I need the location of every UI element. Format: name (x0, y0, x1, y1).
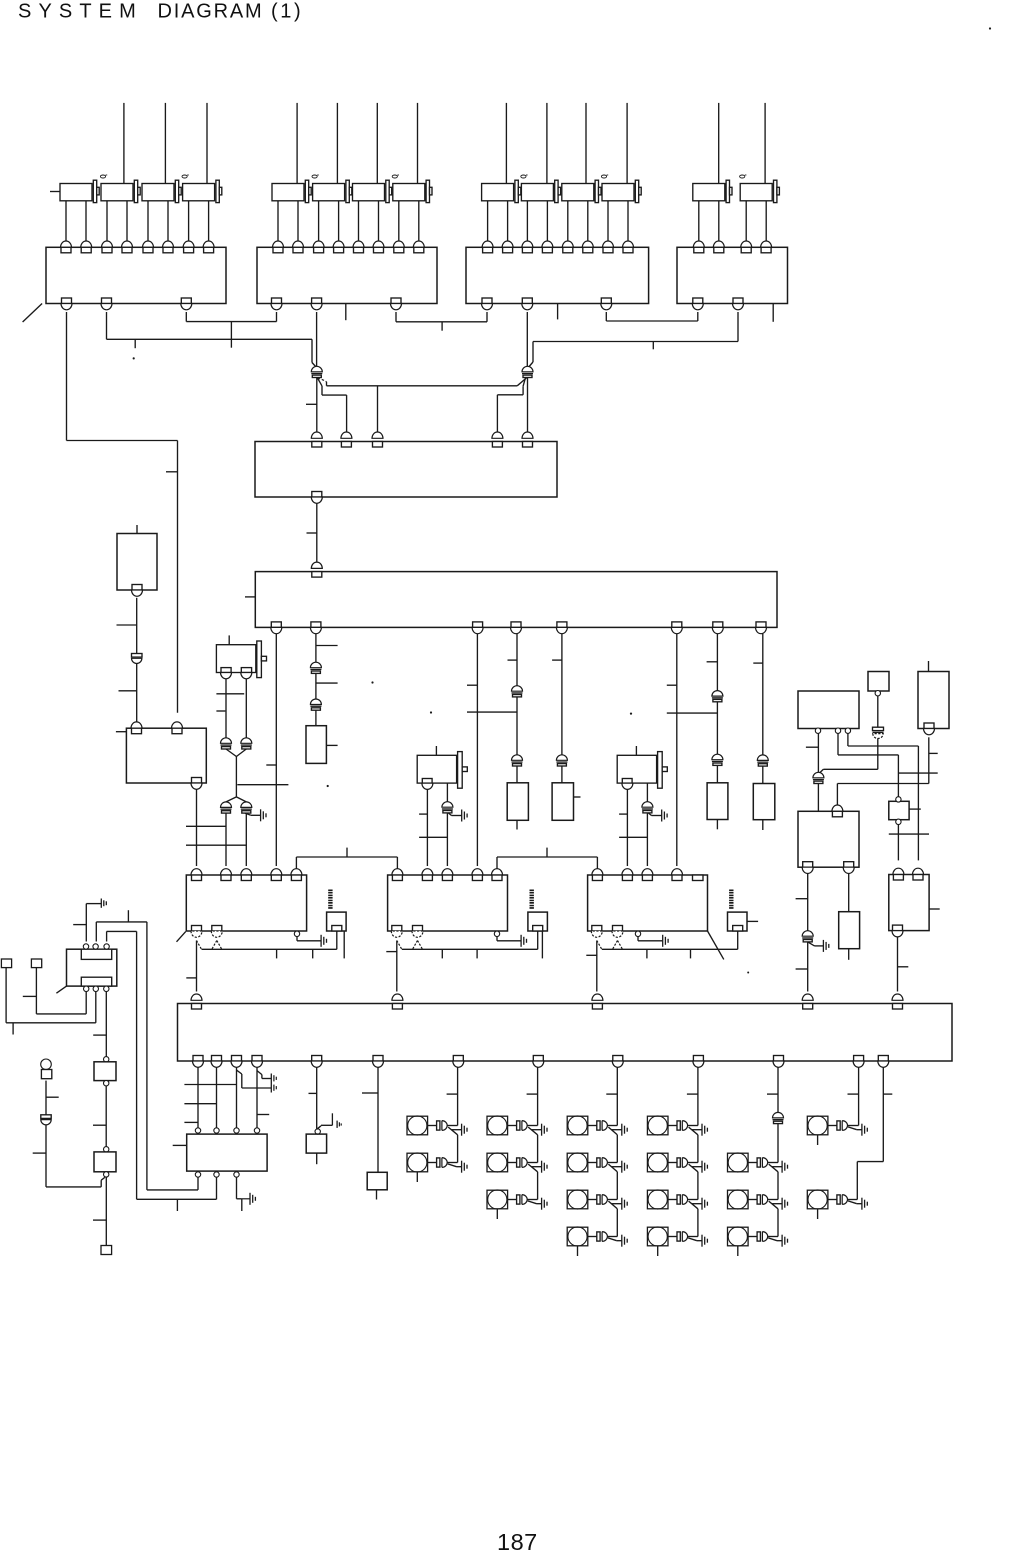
column wire for SPK-F row3 (882, 1067, 884, 1161)
tick on A2 left edge (245, 596, 255, 598)
ground at J6 (448, 813, 451, 816)
component box Z3 (552, 783, 573, 821)
wire CN2 to A1 pin e (527, 378, 529, 433)
branch to ground G2 (237, 1070, 242, 1074)
component box Z2 (507, 783, 528, 821)
column wire (697, 1209, 699, 1237)
stub below SPK-F row1 square (817, 1135, 819, 1145)
motor unit SPK-E row 2 (728, 1153, 749, 1172)
wire T2 to S3 (105, 1177, 107, 1245)
legs of jack J14 (188, 201, 190, 241)
tick right (316, 645, 338, 647)
address bus 3 (184, 1121, 198, 1123)
wire splices below M1 (197, 941, 202, 950)
power box B2 (798, 691, 859, 729)
oscillator box of M1 (327, 912, 347, 931)
stub below U3 (557, 304, 559, 320)
address bus 2 (184, 1103, 216, 1105)
ground of M3 (637, 937, 639, 941)
column wire for SPK-D (697, 1067, 699, 1125)
connector jack J33 (562, 184, 594, 201)
connector jack J14 (183, 184, 215, 201)
tick right on B4 wire (929, 752, 938, 754)
tick left (806, 746, 819, 748)
wire CN2 branch to A1 pin d (523, 378, 525, 387)
column wire (616, 1172, 618, 1200)
connector jack J34 (602, 184, 634, 201)
tick left (362, 1092, 378, 1094)
wire B4 to B5 (928, 737, 930, 783)
tick right (257, 1114, 269, 1116)
connector jack J23 (353, 184, 385, 201)
tick left on x477 (467, 684, 477, 686)
input feed lines group 2 (296, 103, 298, 184)
column wire for SPK-A (457, 1067, 459, 1125)
ground of M2 (496, 937, 498, 941)
bus to riser 2 (106, 931, 108, 941)
column from A2 pin 761 (762, 634, 764, 755)
legs of jack J22 (318, 201, 320, 241)
extra stub below M1 osc (343, 931, 345, 958)
label of M3 oscillator (729, 890, 733, 892)
stub below last SPK-E square (737, 1246, 739, 1256)
connector CN5 (512, 686, 523, 692)
tick right of B6 (909, 808, 921, 810)
tick left (619, 813, 627, 815)
column wire (697, 1135, 699, 1163)
connector jack J6 (435, 746, 437, 755)
wire B5 pin2 down (848, 874, 850, 912)
connector jack J13 (142, 184, 174, 201)
legs of jack J34 (607, 201, 609, 241)
branch to ground G1 (257, 1071, 262, 1075)
motor unit SPK-D row 3 (647, 1190, 668, 1209)
address bus 1 (184, 1084, 236, 1086)
wire U3 pin3 to U4 pin1 (605, 312, 607, 321)
stub up on bus (127, 910, 129, 922)
component box Z1 (306, 726, 326, 764)
top pins of A3 (191, 994, 202, 1000)
legs of jack J32 (526, 201, 528, 241)
tick left (93, 1219, 106, 1221)
selector box U4 (677, 247, 788, 303)
connector CN3 (310, 662, 321, 667)
column from A2 pin 718 (716, 634, 718, 691)
column from A2 pin 562 (561, 634, 563, 755)
tick right of Z3 (574, 796, 581, 798)
wire down from Z6 (136, 598, 138, 654)
tick left on column (687, 1093, 698, 1095)
connector jack J5 (228, 635, 230, 644)
circle pin of T1 (104, 1057, 109, 1062)
wire lamp to CN19 (45, 1081, 47, 1115)
bus M2 pin5 to M3 pin1 (496, 857, 498, 869)
ground bars G1 G2 (270, 1074, 272, 1093)
top pins of U1 (61, 241, 72, 247)
wire (315, 710, 317, 726)
switch lever of M1 (177, 932, 186, 942)
wires into mixer M1 (225, 813, 227, 866)
tick left on riser (33, 1152, 46, 1154)
left pin of J6 (422, 779, 432, 784)
legs of jack J13 (147, 201, 149, 241)
terminal square S1 (1, 959, 11, 968)
stub below SPK-F row3 square (817, 1209, 819, 1219)
legs of jack J21 (277, 201, 279, 241)
legs of jack J41 (698, 201, 700, 241)
relay connector B9 (67, 949, 117, 986)
wire CN1 branch to A1 pin b (317, 378, 322, 386)
connector CN-J6 (442, 802, 453, 808)
wire CN1 dashed link (318, 378, 327, 382)
box B5 (798, 811, 859, 867)
bottom pins of U1 (62, 298, 72, 304)
mute circle pin of M3 (635, 931, 640, 936)
tick on wire at x177 (166, 471, 178, 473)
tick left (93, 1034, 106, 1036)
wire A3 pin2 down (216, 1067, 218, 1127)
transformer box T2 (94, 1152, 116, 1172)
wire (762, 766, 764, 783)
connector CN14 (241, 802, 252, 808)
svg-text:DIAGRAM: DIAGRAM (158, 1, 264, 23)
wire A3 pin6 down (377, 1067, 379, 1172)
tick crossing J5 legs (216, 693, 244, 695)
mixer box M3 (588, 875, 708, 931)
extra stub below M2 osc (541, 931, 543, 958)
stubs below M1 bus (276, 949, 278, 958)
wire B9 to S1 (95, 992, 97, 1023)
stub below U2 (345, 304, 347, 321)
bus M1 pin5 to M2 pin1 (295, 857, 297, 869)
connector CN1 (311, 366, 322, 372)
stub up on bus (346, 848, 348, 857)
connector CN13 (221, 802, 232, 808)
bus below M2 (402, 948, 538, 950)
tick right (316, 682, 338, 684)
processor box A1 (255, 442, 557, 498)
motor unit SPK-A row 2 (407, 1153, 428, 1172)
ground at CN18 (808, 942, 815, 946)
tick left (796, 968, 808, 970)
wire M1 output (196, 941, 198, 992)
connector CN12 (241, 738, 252, 743)
wire A3 pin1 down (197, 1067, 199, 1127)
bus stub left y825 (186, 825, 226, 827)
stub on bus (134, 339, 136, 348)
circle pins of B9 bottom (84, 986, 89, 991)
wire T1 to T2 (105, 1086, 107, 1147)
tick left (386, 951, 397, 953)
connector CN10 (757, 755, 768, 761)
top pins of A1 (311, 432, 322, 438)
tick left on column (767, 1093, 778, 1095)
terminal square S2 (31, 959, 41, 968)
left leg of J6 to mixer (426, 789, 428, 866)
speck (430, 711, 432, 713)
lamp circle (41, 1059, 52, 1070)
wire A3 pin3 down (236, 1067, 238, 1127)
top pins of M3 (592, 869, 603, 875)
connector CN11 (221, 738, 232, 743)
bottom pins of M2 (392, 926, 402, 932)
connector jack J42 (740, 184, 772, 201)
wire B1 to mixer M1 (196, 789, 198, 866)
left pin of J7 (622, 779, 632, 784)
tick left on x677 (667, 684, 677, 686)
connector CN9 (712, 754, 723, 760)
column wire for SPK-B (537, 1067, 539, 1125)
wire B2 pin3 to R1 (847, 733, 849, 746)
tick left on column (606, 1093, 617, 1095)
wire B7 out1 (197, 1177, 199, 1190)
wire U1 pin3 to U2 pin1 (185, 312, 187, 322)
wire (716, 702, 718, 754)
bottom pin of B1 (192, 778, 202, 784)
tick left (117, 624, 138, 626)
wire B7 out3 (236, 1177, 238, 1199)
wire B9 to S2 (85, 992, 87, 1014)
tick right of R1 (929, 908, 940, 910)
wire U3 pin2 into CN2 (526, 312, 528, 366)
bus stub left y844 (186, 844, 246, 846)
circle pins of B7 bottom (195, 1172, 200, 1177)
small box B3 (868, 672, 889, 692)
legs of jack J31 (487, 201, 489, 241)
ground at J7 (648, 813, 651, 816)
circle pins of B9 top (83, 944, 88, 949)
wire (315, 673, 317, 699)
stub below Z8 (376, 1190, 378, 1200)
mute circle pin of M1 (294, 931, 299, 936)
wire into connector CN1 (311, 339, 313, 362)
bottom pins of A2 (271, 622, 281, 628)
motor unit SPK-C row 4 (567, 1227, 588, 1246)
connector CN17 (813, 772, 824, 778)
wire B2 pin1 down (817, 733, 819, 773)
control box B1 (126, 728, 206, 783)
wire B3 down (877, 696, 879, 727)
capacitor connector on column E (773, 1112, 784, 1117)
wire B7 out2 (216, 1177, 218, 1199)
wire A1 to A2 (316, 504, 318, 566)
column wire (697, 1172, 699, 1200)
oscillator box of M3 (728, 912, 748, 931)
legs of J5 (225, 679, 227, 738)
bottom pins of J5 (221, 668, 231, 673)
tick right on column (883, 1093, 892, 1095)
svg-text:SYSTEM: SYSTEM (18, 1, 143, 23)
circle pin of B3 (875, 691, 880, 696)
merge wires of J5 (226, 749, 236, 757)
box B6 (889, 801, 909, 819)
circle pin of T2 (104, 1147, 109, 1152)
selector box U3 (466, 247, 649, 303)
tick left (796, 898, 808, 900)
tick on wire (307, 532, 317, 534)
motor unit SPK-C row 1 (567, 1116, 588, 1135)
bottom pins of U2 (272, 298, 282, 304)
empty pin of M3 (693, 875, 704, 881)
tick left (586, 954, 597, 956)
switch lever at U1 (23, 304, 42, 323)
bottom pin of Z6 (132, 585, 142, 591)
column wire for SPK-C (616, 1067, 618, 1125)
connector jack J21 (272, 184, 304, 201)
column wire (616, 1209, 618, 1237)
tick left (93, 1124, 106, 1126)
split wires to M1 (226, 797, 236, 802)
tick right of M3 oscillator (747, 920, 758, 922)
processor box A3 (178, 1004, 953, 1062)
label of M1 oscillator (328, 890, 332, 892)
bus to riser 1 (95, 922, 97, 942)
right leg of J7 to mixer (646, 813, 648, 866)
wire A2 pin 276 to mixer M1 (275, 634, 277, 866)
motor unit SPK-C row 2 (567, 1153, 588, 1172)
speck (371, 681, 373, 683)
stub on bus (441, 322, 443, 331)
column wire (537, 1172, 539, 1200)
bottom pins of A3 (193, 1056, 203, 1062)
top pins of M1 (191, 869, 202, 875)
input feed lines group 3 (505, 103, 507, 184)
drop to A1 pin c (377, 386, 379, 432)
component box Z7 (839, 912, 860, 949)
tick left on column (527, 1093, 538, 1095)
bottom pin of A1 (312, 492, 322, 498)
mute circle pin of M2 (494, 931, 499, 936)
stubs below M3 bus (646, 949, 648, 958)
tick crossing (889, 833, 929, 835)
legs of jack J12 (106, 201, 108, 241)
wire B6 to R1 (897, 825, 899, 861)
stub below Z7 (848, 949, 850, 960)
stub below U4 (772, 304, 774, 322)
top pins of U4 (693, 241, 704, 247)
top pins of M2 (392, 869, 403, 875)
legs of jack J11 (65, 201, 67, 241)
wire B2 pin2 to B6 (837, 733, 839, 755)
circle pin of T2 bottom (104, 1172, 109, 1177)
column wire (616, 1135, 618, 1163)
lamp base rect (41, 1070, 51, 1079)
wire A2 pin 677 to mixer M3 (676, 634, 678, 866)
stub below (12, 1023, 14, 1035)
switch lever of B9 (56, 986, 67, 993)
riser wire left 2 (136, 931, 138, 1199)
motor unit SPK-E row 4 (728, 1227, 749, 1246)
connector jack J31 (482, 184, 514, 201)
branch wire from T2 (101, 1177, 105, 1180)
motor unit SPK-A row 1 (407, 1116, 428, 1135)
circle pin of T1 bottom (104, 1081, 109, 1086)
top pins of R1 (893, 868, 904, 874)
connector jack J22 (313, 184, 345, 201)
stub on bus (230, 322, 232, 348)
oscillator box of M2 (528, 912, 548, 931)
tick left (186, 977, 196, 979)
wire (716, 765, 718, 782)
column wire (777, 1124, 779, 1163)
selector box U1 (46, 247, 226, 303)
mixer box M2 (388, 875, 508, 931)
tick left on ground wire (73, 924, 86, 926)
stub above B4 (928, 661, 930, 672)
tall box B4 (918, 672, 949, 729)
speck (327, 785, 329, 787)
wire U1 pin2 bus (106, 312, 108, 339)
selector box U2 (257, 247, 437, 303)
connector CN2 (522, 366, 533, 372)
bus crossing x677 to x717 (667, 712, 718, 714)
bottom pin of R1 (893, 925, 903, 931)
wire CN17 into B5 (817, 784, 819, 811)
tick on wire x276 (266, 764, 276, 766)
jog to ground G4 (317, 1126, 321, 1129)
legs of jack J24 (398, 201, 400, 241)
relay box B8 (306, 1134, 326, 1153)
speck (989, 27, 991, 29)
motor unit SPK-B row 1 (487, 1116, 508, 1135)
bottom pins of M3 (592, 926, 602, 932)
right leg of J6 (446, 783, 448, 802)
riser to lamp chain (45, 1125, 47, 1187)
connector CN6 (512, 755, 523, 761)
top pins of U2 (273, 241, 284, 247)
column from A2 pin 316 (315, 634, 317, 663)
connector CN7 (556, 755, 567, 761)
wire U4 pin2 into CN2 (737, 312, 739, 342)
connector jack J11 (60, 184, 92, 201)
stub below (176, 1199, 178, 1211)
connector jack J32 (521, 184, 553, 201)
motor unit SPK-D row 4 (647, 1227, 668, 1246)
wire CN1 to A1 pin a (316, 378, 318, 433)
tick left (309, 1092, 317, 1094)
connector jack J7 (635, 746, 637, 755)
legs of jack J23 (358, 201, 360, 241)
wire (516, 766, 518, 783)
legs of jack J42 (745, 201, 747, 241)
terminal square S3 (101, 1246, 112, 1255)
tick left (23, 995, 37, 997)
wire splices below M3 (597, 941, 602, 950)
tick left of J5 leg (216, 710, 225, 712)
connector jack J12 (101, 184, 133, 201)
top pins of U3 (482, 241, 493, 247)
stubs below M2 bus (441, 949, 443, 958)
tick left (119, 690, 138, 692)
tick right of Z1 (326, 744, 337, 746)
wire (561, 766, 563, 783)
connector bars CN16 (873, 727, 884, 730)
left leg of J7 to mixer (626, 789, 628, 866)
tick left (552, 659, 562, 661)
stub below G3 wire (241, 1199, 243, 1211)
wire M2 output (396, 941, 398, 992)
mixer box M1 (186, 875, 306, 931)
connector jack J24 (393, 184, 425, 201)
stub below last SPK-A square (416, 1172, 418, 1182)
circle pin of B8 (315, 1129, 320, 1134)
stub on lower bus (652, 342, 654, 350)
connector jack J41 (693, 184, 725, 201)
circle pins of B7 top (195, 1128, 200, 1133)
wire (516, 697, 518, 755)
wire CN18 to bottom box (807, 942, 809, 992)
legs of jack J33 (567, 201, 569, 241)
